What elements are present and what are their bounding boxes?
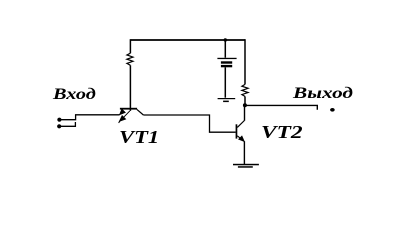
battery GB plates bottom bbox=[218, 98, 236, 102]
wire left vertical lower (R1 to VT1) bbox=[129, 65, 131, 111]
wire input lower stub bbox=[59, 122, 75, 126]
wire top supply rail bbox=[131, 39, 246, 41]
node input terminal lower bbox=[57, 124, 61, 128]
transistor VT2 bbox=[236, 121, 245, 142]
transistor label VT2 bbox=[261, 122, 303, 143]
wire VT2 emitter to ground bbox=[243, 141, 245, 164]
wire R2 to output node bbox=[244, 96, 246, 105]
node label Выход bbox=[293, 85, 353, 103]
wire VT1 to step corner bbox=[143, 115, 235, 132]
junction battery top bbox=[224, 38, 227, 41]
wire right vertical (rail corner to R2) bbox=[244, 39, 246, 84]
wire battery top lead bbox=[224, 40, 226, 58]
wire VT2 collector to output node bbox=[244, 105, 246, 120]
node output terminal bbox=[330, 108, 335, 112]
battery GB plates top bbox=[217, 58, 236, 68]
transistor VT1 bbox=[119, 108, 144, 123]
resistor R2 bbox=[242, 84, 248, 96]
node label Вход bbox=[53, 86, 96, 104]
wire left vertical upper (rail corner to R1) bbox=[129, 39, 131, 53]
wire battery middle lead bbox=[224, 67, 226, 97]
node output junction bbox=[243, 103, 247, 107]
node input terminal upper bbox=[57, 118, 61, 122]
resistor R1 bbox=[127, 53, 133, 65]
transistor label VT1 bbox=[119, 127, 159, 148]
wire output bbox=[247, 105, 318, 109]
ground bbox=[233, 164, 259, 168]
wire input upper stub bbox=[59, 115, 119, 120]
